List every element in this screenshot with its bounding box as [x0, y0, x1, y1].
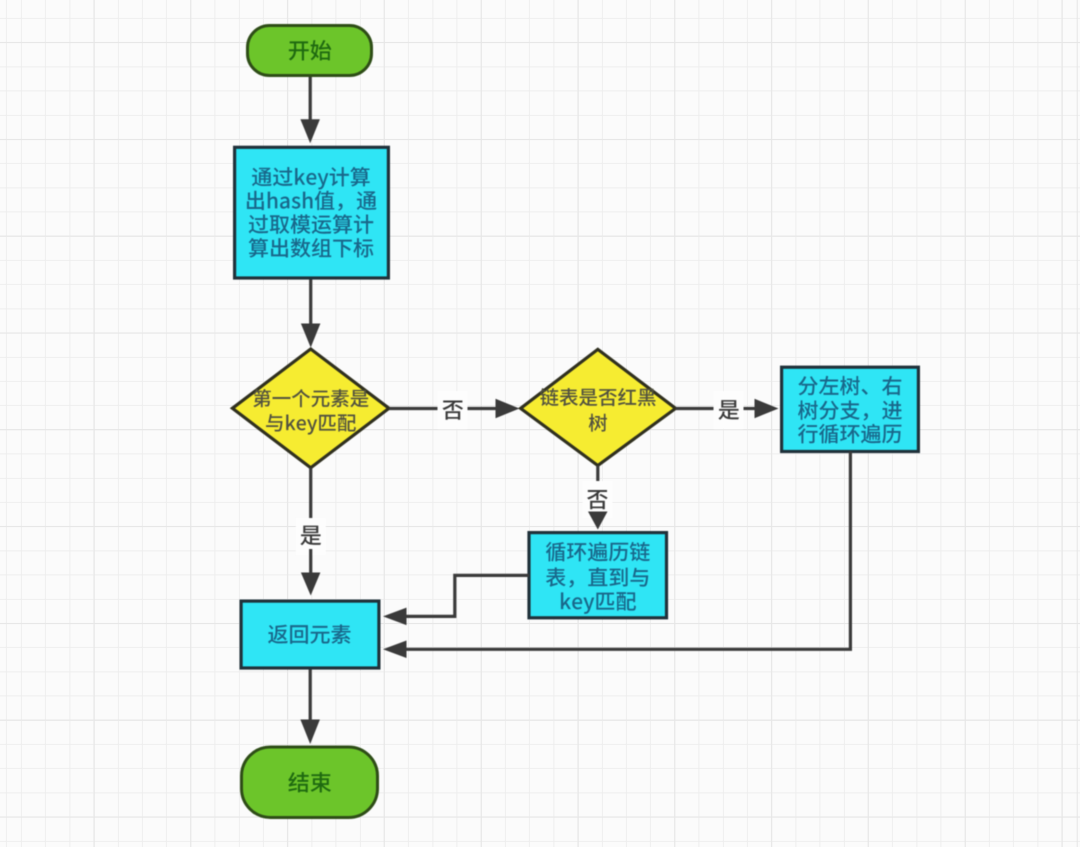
- arrowhead into D2 left: [496, 399, 520, 418]
- decision diamond D2: 链表是否红黑树: [521, 349, 676, 465]
- arrowhead into END top: [300, 720, 320, 745]
- process box B3: 循环遍历链表: [529, 533, 667, 618]
- arrowhead into B3 top: [588, 512, 608, 530]
- B1 text line4: [249, 238, 374, 258]
- B2 text line2: [798, 400, 902, 420]
- arrowhead into B2 left: [755, 399, 779, 418]
- process box B4: 返回元素: [241, 601, 379, 668]
- B1 text line2: [247, 191, 377, 211]
- wire D1 bottom to B4 (yes branch): [309, 468, 312, 521]
- arrowhead into B4 right (lower): [383, 641, 407, 659]
- arrowhead into B1 top: [300, 119, 320, 143]
- arrowhead into D1 top: [301, 324, 321, 348]
- D1 text line2: [266, 414, 356, 435]
- B2 text line3: [798, 424, 901, 444]
- wire B2 bottom to B4 (long L-shape): [407, 452, 851, 650]
- wire B1 to diamond D1: [309, 280, 312, 325]
- D1 text line1: [253, 389, 369, 407]
- B1 text line3: [249, 214, 374, 234]
- arrowhead into B4 right (upper): [383, 608, 407, 626]
- D2 text line1: [540, 388, 656, 406]
- wire B4 bottom to END: [309, 670, 312, 721]
- node START: green stadium 开始: [248, 26, 372, 76]
- node END: green stadium 结束: [242, 747, 378, 818]
- label 否 on D2-B3 wire: [583, 481, 613, 518]
- B3 text line1: [546, 542, 650, 562]
- D2 text line2: [589, 414, 607, 432]
- decision diamond D1: 第一个元素是与key匹配: [232, 349, 389, 468]
- B1 text line1: [252, 167, 370, 190]
- B2 text line1: [798, 376, 901, 396]
- label 结束: [288, 772, 331, 792]
- label 开始: [289, 40, 331, 61]
- wire START to box B1: [309, 77, 312, 121]
- arrowhead into B4 top: [301, 573, 321, 596]
- label 是 on D1-B4 wire: [296, 518, 326, 555]
- wire D2 bottom to box B3 (no branch): [596, 466, 599, 486]
- wire B3 left to B4 (L-shape): [407, 575, 530, 616]
- wire D2 right to box B2 (yes branch): [676, 407, 716, 410]
- label 否 on D1-D2 wire: [438, 391, 468, 429]
- process box B1: 通过key计算出hash值: [235, 147, 389, 278]
- process box B2: 分左树右树分支: [782, 367, 919, 451]
- B4 text: [268, 624, 351, 643]
- B3 text line3: [561, 592, 636, 614]
- label 是 on D2-B2 wire: [714, 391, 744, 429]
- B3 text line2: [546, 567, 648, 587]
- wire D1 right to D2 (no branch): [389, 407, 438, 410]
